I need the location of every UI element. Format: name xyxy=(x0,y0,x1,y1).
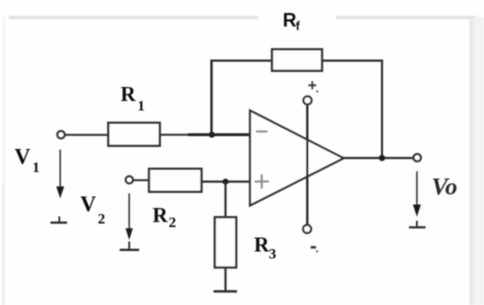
negative supply terminal xyxy=(303,225,311,233)
wire feedback top right xyxy=(322,59,383,61)
label Rf xyxy=(283,11,301,33)
svg-text:V: V xyxy=(80,191,96,216)
resistor R1 xyxy=(108,123,160,146)
op-amp plus sign xyxy=(255,174,270,188)
svg-text:V: V xyxy=(15,143,31,168)
svg-text:f: f xyxy=(296,19,301,33)
wire feedback right vertical xyxy=(381,60,383,159)
resistor R2 xyxy=(149,169,202,192)
resistor R3 xyxy=(215,217,236,267)
wire R3 to ground xyxy=(224,268,226,291)
wire feedback left vertical xyxy=(210,60,212,136)
label R2 xyxy=(153,203,177,231)
svg-text:3: 3 xyxy=(269,246,277,262)
terminal V2 input xyxy=(126,176,133,183)
label V1 xyxy=(15,143,40,176)
terminal V1 input xyxy=(57,131,65,139)
terminal Vo output xyxy=(413,154,421,162)
label V2 xyxy=(80,191,105,228)
wire R2 to non-inverting input xyxy=(202,181,251,183)
label R3 xyxy=(254,232,276,262)
junction dot at non-inverting node xyxy=(223,179,229,185)
wire junction down to R3 xyxy=(224,182,226,218)
svg-text:1: 1 xyxy=(137,99,145,115)
svg-text:Vo: Vo xyxy=(432,174,458,201)
wire op-amp output xyxy=(343,157,413,159)
wire feedback top left xyxy=(210,59,272,61)
resistor Rf xyxy=(272,49,322,71)
label minus supply xyxy=(311,247,317,252)
arrow V1 xyxy=(56,150,64,199)
ground V1 xyxy=(51,216,68,222)
wire V1 to R1 xyxy=(65,134,108,136)
op-amp U1 triangle xyxy=(250,111,344,206)
ground Vo xyxy=(409,221,426,228)
svg-text:1: 1 xyxy=(32,160,40,176)
wire V2 to R2 xyxy=(133,179,149,181)
arrow Vo xyxy=(413,171,421,217)
positive supply terminal xyxy=(303,96,311,104)
junction dot at inverting node xyxy=(209,132,215,138)
junction dot output node xyxy=(379,155,385,161)
power supply rail vertical wire xyxy=(306,105,308,226)
label R1 xyxy=(121,82,145,115)
ground R3 xyxy=(214,290,238,293)
arrow V2 xyxy=(126,193,133,240)
ground V2 xyxy=(120,242,140,250)
svg-text:2: 2 xyxy=(98,211,106,227)
svg-text:R: R xyxy=(153,203,169,227)
svg-text:R: R xyxy=(283,11,297,32)
label plus supply xyxy=(308,81,317,92)
op-amp minus sign xyxy=(256,130,268,132)
wire R1 to inverting input xyxy=(160,134,189,136)
svg-text:R: R xyxy=(254,232,270,256)
svg-text:R: R xyxy=(121,82,137,106)
svg-text:2: 2 xyxy=(169,215,177,231)
